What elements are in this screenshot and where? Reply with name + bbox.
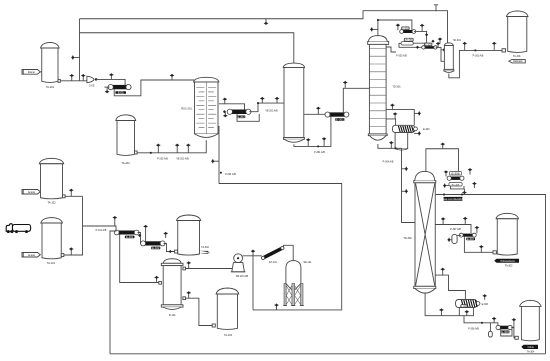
diamond left of E-202 xyxy=(223,110,226,113)
reactor SE-101 xyxy=(286,261,301,284)
heat exchanger E-05 xyxy=(111,85,127,89)
pipe E-309 to TA-304 xyxy=(511,328,515,338)
diamond on TD-302 feed line 2 xyxy=(402,189,409,193)
stream label Cobre xyxy=(521,345,538,349)
pipe TA-201 to compressor C-05 xyxy=(60,80,87,82)
valve marker on vapor return xyxy=(390,104,394,110)
junction dot on overhead xyxy=(377,19,379,21)
nozzle TA-201 outlet xyxy=(58,79,60,82)
nozzle TA-304 xyxy=(515,336,518,339)
valve marker on E-304 feed xyxy=(393,112,397,119)
svg-text:P-201 A/B: P-201 A/B xyxy=(225,173,236,176)
svg-text:E-307: E-307 xyxy=(467,237,475,241)
pipe flag to TA-102 xyxy=(39,191,41,193)
exchanger EC-308 xyxy=(449,183,462,187)
drum under E-304 xyxy=(395,133,408,149)
svg-text:P-306 A/B: P-306 A/B xyxy=(468,327,479,330)
pipe E-306 to E-309 xyxy=(464,316,498,326)
tank TA-304 xyxy=(520,300,542,306)
svg-text:RGC-201: RGC-201 xyxy=(181,108,192,111)
label E-307 xyxy=(466,238,475,241)
valve marker P-301 2 xyxy=(322,137,326,146)
nozzle D-101 top right xyxy=(183,267,186,270)
nozzle TA-101 outlet xyxy=(61,254,64,257)
heat exchanger E-102 xyxy=(144,241,162,245)
valve marker on TD-301 overhead xyxy=(370,27,378,31)
pipe TA-102 to header xyxy=(65,195,82,197)
valve marker on side draw xyxy=(211,159,219,163)
diamond between E-101 and E-102 xyxy=(138,234,141,237)
pipe RGC-201 bottoms to TA-202 xyxy=(137,140,206,153)
column TD-302 xyxy=(414,181,436,183)
valve marker P-307 2 xyxy=(463,217,467,225)
valve marker on bottoms xyxy=(389,141,393,148)
label E-308 box xyxy=(450,172,462,175)
pipe TD-301 draw to E-304 xyxy=(386,119,396,125)
svg-text:TA-202: TA-202 xyxy=(121,161,130,165)
heat exchanger E-101 xyxy=(117,231,135,235)
valve marker P-303 2 xyxy=(492,42,496,51)
valve marker on E-306 feed xyxy=(441,268,445,276)
valve marker on E-303 loop xyxy=(441,48,446,52)
kettle reboiler E-304 xyxy=(392,125,415,132)
junction tick on bottoms line xyxy=(150,152,152,154)
heat exchanger E-202 xyxy=(231,110,248,115)
svg-text:P-302 A/B: P-302 A/B xyxy=(396,55,407,58)
pipe E-309 loop xyxy=(501,329,512,336)
valve marker on TA-303 feed xyxy=(479,245,483,252)
diamond on E-303 feed xyxy=(416,46,419,49)
pipe SF-201 bottoms to P-301 xyxy=(294,117,331,147)
drum near P-306 xyxy=(489,331,493,337)
diamond left of EC-308 xyxy=(443,184,449,188)
pipe ET-101 to SE-101 xyxy=(284,245,294,260)
pipe header to E-101 xyxy=(83,226,117,231)
label E-202 xyxy=(237,116,245,119)
label C-306 box xyxy=(461,305,468,308)
valve marker on TD-301 feed xyxy=(343,81,347,89)
svg-text:FB-101 A/B: FB-101 A/B xyxy=(236,275,249,278)
svg-text:E-306: E-306 xyxy=(482,303,489,306)
stream label gases xyxy=(200,251,211,254)
valve marker on SF-301 inlet xyxy=(436,42,440,48)
svg-text:SF-301: SF-301 xyxy=(453,39,462,42)
valve marker right of E-304 bottom xyxy=(414,131,421,135)
riser pipe to top rails xyxy=(79,19,81,81)
pipe E-303 to SF-301 xyxy=(436,47,445,61)
heat exchanger E-309 xyxy=(499,326,510,330)
svg-text:TA-301: TA-301 xyxy=(513,55,521,58)
pipe FB-101 discharge to ET-101 xyxy=(243,255,262,257)
pipe E-301 outlet to TD-301 xyxy=(343,88,369,112)
pipe recycle riser to E-101 xyxy=(110,231,117,354)
heat exchanger E-302 xyxy=(402,30,413,33)
pipe E-304 vapor return xyxy=(386,109,414,125)
truck icon xyxy=(12,225,30,232)
junction tick P-304 xyxy=(395,147,397,149)
stream label gas combustible xyxy=(444,197,463,201)
pipe Etano flag to tank TA-201 xyxy=(40,71,41,73)
pipe EC-308 loop xyxy=(451,186,465,189)
label E-102 xyxy=(151,247,160,250)
valve marker below E-202 inlet xyxy=(223,112,227,118)
air cooler EA-301 xyxy=(401,42,413,45)
tank TA-301 xyxy=(507,11,529,17)
valve marker on riser xyxy=(71,55,79,59)
valve marker P-301 1 xyxy=(306,138,310,146)
pipe D-101 vapor to FB-101 xyxy=(186,268,234,270)
label E-05 xyxy=(115,91,126,94)
kettle reboiler E-306 xyxy=(456,300,478,308)
svg-text:E-301: E-301 xyxy=(336,118,344,122)
pipe C-05 to E-05 xyxy=(96,79,125,85)
svg-text:TD-301: TD-301 xyxy=(392,86,401,89)
nozzle D-101 lower right xyxy=(183,297,186,300)
svg-text:TA-302: TA-302 xyxy=(201,246,209,249)
compressor C-05 xyxy=(87,76,94,83)
valve marker on overhead xyxy=(223,98,227,104)
exchanger ET-101 xyxy=(261,246,285,261)
nozzle TA-301 xyxy=(502,49,506,52)
valve marker on bottoms line xyxy=(439,308,443,316)
product flag Rafinado xyxy=(509,59,525,63)
nozzle TA-103 xyxy=(212,324,215,327)
pipe SF-301 bottoms to TA-301 xyxy=(449,50,502,77)
label E-303 box xyxy=(424,43,432,46)
svg-text:P-307 A/B: P-307 A/B xyxy=(450,228,461,231)
valve marker below E-05 stub xyxy=(105,87,109,93)
heat exchanger E-301 xyxy=(328,112,346,116)
junction tick recycle 2 xyxy=(461,194,463,196)
svg-text:E-303: E-303 xyxy=(424,42,432,46)
pipe D-101 liquid to TA-103 xyxy=(186,298,213,325)
feed flag Aceite 1 xyxy=(22,190,40,195)
junction tick P-201 xyxy=(220,172,222,174)
svg-text:Hidrocarburos: Hidrocarburos xyxy=(501,260,516,263)
valve marker right of EC-308 xyxy=(472,182,476,188)
pipe E-101 to E-102 xyxy=(138,233,142,244)
valve marker on rail 1 xyxy=(264,19,268,25)
valve marker on D-101 feed xyxy=(155,276,159,283)
tank TA-201 xyxy=(41,42,60,48)
valve marker below EC-308 loop xyxy=(462,189,466,194)
valve marker VE-202 2 xyxy=(186,144,190,153)
junction dot after C-05 xyxy=(95,78,98,81)
svg-text:EA-301: EA-301 xyxy=(404,38,414,42)
stub pipe left of E-05 xyxy=(104,86,109,88)
feed flag Aceite 2 xyxy=(22,253,40,258)
column SF-201 xyxy=(283,63,304,67)
pipe TD-301 bottoms to TD-302 xyxy=(378,144,415,223)
valve marker on TA-201 outlet 2 xyxy=(81,74,85,81)
valve marker right above E-308 xyxy=(468,168,472,175)
label E-309 xyxy=(501,331,510,334)
nozzle TA-302 xyxy=(175,250,178,253)
heat exchanger E-308 xyxy=(450,177,461,180)
svg-text:Cobre: Cobre xyxy=(528,346,535,349)
pipe TD-302 lower side to E-306 xyxy=(435,275,466,299)
svg-text:E-304: E-304 xyxy=(423,128,430,131)
valve marker on SF-201 feed 1 xyxy=(260,97,264,103)
valve marker right of E-302 inlet xyxy=(420,24,424,32)
vessel D-101 xyxy=(163,259,181,264)
pipe TA-101 to header xyxy=(64,196,83,255)
pipe drum to E-307 xyxy=(457,234,461,236)
svg-text:TA-303: TA-303 xyxy=(505,265,513,268)
diamond on TA-302 feed xyxy=(169,250,172,253)
svg-text:Aceite: Aceite xyxy=(28,190,36,194)
svg-text:P-202 A/B: P-202 A/B xyxy=(157,158,168,161)
pipe E-101 to D-101 line B xyxy=(120,235,159,283)
label EA-301 box xyxy=(404,38,413,41)
valve marker on TD-302 overhead xyxy=(441,142,445,148)
svg-text:P-101 A/B: P-101 A/B xyxy=(96,229,107,232)
svg-text:E-102: E-102 xyxy=(152,246,160,250)
tank TA-102 xyxy=(39,158,63,163)
nozzle TA-202 xyxy=(135,151,138,154)
pipe TD-302 bottoms to E-306 xyxy=(425,293,473,316)
valve marker on discharge xyxy=(251,250,255,256)
blower FB-101 xyxy=(232,263,245,272)
svg-text:D-101: D-101 xyxy=(169,314,176,317)
valve marker on E-05 outlet xyxy=(170,74,174,80)
valve marker TA-102 outlet xyxy=(69,189,73,197)
stream label Hidrocarburos xyxy=(494,259,519,263)
svg-text:E-202: E-202 xyxy=(237,115,245,119)
valve marker on loop bottom xyxy=(274,303,278,310)
top rail line 1 to SF-301 xyxy=(80,11,448,43)
valve marker P-303 1 xyxy=(463,42,467,51)
pipe drum to P-306 line xyxy=(489,323,491,332)
svg-text:E-309: E-309 xyxy=(501,330,509,334)
svg-text:SE-101: SE-101 xyxy=(304,261,313,264)
pipe TD-302 overhead to E-308 xyxy=(426,149,459,172)
pipe E-102 to TA-302 xyxy=(164,244,175,252)
svg-text:P-301 A/B: P-301 A/B xyxy=(314,151,325,154)
svg-text:TA-102: TA-102 xyxy=(47,201,56,205)
valve marker on D-101 liquid xyxy=(187,291,191,298)
svg-text:Aceite: Aceite xyxy=(28,253,36,257)
pipe TD-302 recycle to bottom rail xyxy=(436,195,546,354)
valve marker on E-301 inlet xyxy=(316,107,320,115)
pipe TD-302 side draw to E-307 xyxy=(435,225,471,234)
label E-301 xyxy=(335,118,344,121)
diamond near EA-301 right xyxy=(431,40,434,43)
pipe E-307 to TA-303 xyxy=(464,237,493,253)
heat exchanger E-307 xyxy=(462,234,474,237)
diamond on TD-302 feed line 1 xyxy=(402,167,409,171)
pipe E-202 outlet to SF-201 xyxy=(249,103,284,112)
valve marker on SF-201 feed 2 xyxy=(275,97,279,103)
valve marker on D-101 vapor xyxy=(187,261,191,268)
valve marker P-202 1 xyxy=(156,144,160,153)
valve marker P-307 1 xyxy=(441,217,445,224)
svg-text:EC-308: EC-308 xyxy=(452,185,460,187)
pipe SF-201 side to E-301 xyxy=(304,113,327,115)
column RGC-201 xyxy=(194,77,219,82)
valve marker on C-05 discharge xyxy=(109,73,113,79)
pipe RGC-201 overhead to E-202 xyxy=(219,104,245,110)
pipe recycle branch down xyxy=(252,256,254,310)
label E-302 box xyxy=(402,27,410,30)
tank TA-303 xyxy=(496,213,518,218)
svg-text:Etano: Etano xyxy=(28,70,35,74)
valve marker above E-102 xyxy=(144,225,148,242)
svg-text:E-05: E-05 xyxy=(118,91,124,95)
valve marker under E-306 xyxy=(465,310,469,316)
svg-text:P-304 A/B: P-304 A/B xyxy=(383,160,394,163)
svg-text:E-308: E-308 xyxy=(451,171,459,175)
svg-text:E-101: E-101 xyxy=(126,235,134,239)
svg-text:TA-103: TA-103 xyxy=(224,334,233,337)
svg-text:TA-304: TA-304 xyxy=(527,351,535,354)
junction tick P-306 xyxy=(481,322,483,324)
valve marker on P-101 line xyxy=(113,216,117,226)
valve marker left of drum xyxy=(447,238,452,242)
svg-text:C-306: C-306 xyxy=(460,304,468,308)
vessel SF-301 xyxy=(444,43,453,46)
valve marker right of E-307 xyxy=(475,226,479,234)
feed flag Etano xyxy=(22,70,40,75)
junction tick recycle 1 xyxy=(443,194,445,196)
valve marker above E-303 xyxy=(438,37,442,43)
pipe lower loop rectangle xyxy=(219,184,342,310)
valve marker on E-102 outlet xyxy=(164,232,168,238)
drum near E-307 xyxy=(452,234,457,243)
tank TA-103 xyxy=(216,288,239,294)
valve marker TA-101 outlet xyxy=(69,247,73,255)
svg-text:C-05: C-05 xyxy=(89,84,95,88)
nozzle D-101 left xyxy=(159,281,162,284)
tank TA-202 xyxy=(116,115,136,121)
svg-text:E-302: E-302 xyxy=(401,26,409,30)
pipe E-05 outlet loop to RGC-201 xyxy=(114,80,194,96)
heat exchanger E-303 xyxy=(424,46,435,49)
label E-101 xyxy=(125,236,134,239)
nozzle TA-303 xyxy=(493,251,496,254)
valve marker above E-309 left xyxy=(492,317,496,323)
top rail line 2 to SF-201 xyxy=(80,33,294,63)
svg-text:VE-202 A/B: VE-202 A/B xyxy=(176,158,189,161)
svg-text:TD-302: TD-302 xyxy=(403,237,412,240)
svg-text:Gases: Gases xyxy=(201,252,208,254)
pipe TD-301 reflux xyxy=(386,47,396,52)
junction tick on P-303 line xyxy=(475,50,477,52)
pipe E-202 loop xyxy=(237,114,259,121)
tank TA-302 xyxy=(177,215,201,221)
diamond on E-302 outlet xyxy=(425,33,428,36)
valve marker left of E-308 xyxy=(444,170,448,176)
svg-text:TA-101: TA-101 xyxy=(47,261,56,265)
svg-text:TA-201: TA-201 xyxy=(46,85,55,89)
valve marker left of E-302 xyxy=(396,24,400,31)
valve marker above E-306 cap xyxy=(483,294,487,300)
svg-text:Rafinado: Rafinado xyxy=(513,61,523,63)
valve marker above E-309 right xyxy=(512,318,516,328)
vent tick on rail 1 xyxy=(434,5,438,11)
pipe EA-301 to E-303 xyxy=(399,43,423,47)
svg-text:Gas combustible: Gas combustible xyxy=(442,197,465,201)
pipe RGC-201 side draw down to lower section xyxy=(218,127,219,184)
svg-text:VE-202 A/B: VE-202 A/B xyxy=(265,110,278,113)
valve marker right of E-304 top xyxy=(414,111,421,115)
nozzle TA-102 outlet xyxy=(63,195,66,198)
pipe E-302 to EA-301 xyxy=(413,31,426,43)
valve marker on TA-201 outlet 1 xyxy=(70,74,74,81)
valve marker VE-202 1 xyxy=(175,144,179,153)
pipe TD-301 overhead to E-302 xyxy=(378,20,412,36)
junction dot E-202 outlet xyxy=(257,102,259,104)
svg-text:P-303 A/B: P-303 A/B xyxy=(473,54,484,57)
tank TA-101 xyxy=(41,218,63,223)
column TD-301 xyxy=(368,42,389,45)
svg-text:ET-101: ET-101 xyxy=(269,261,277,264)
pipe bottom recycle rail xyxy=(110,353,546,355)
junction tick on P-301 line xyxy=(317,146,319,148)
